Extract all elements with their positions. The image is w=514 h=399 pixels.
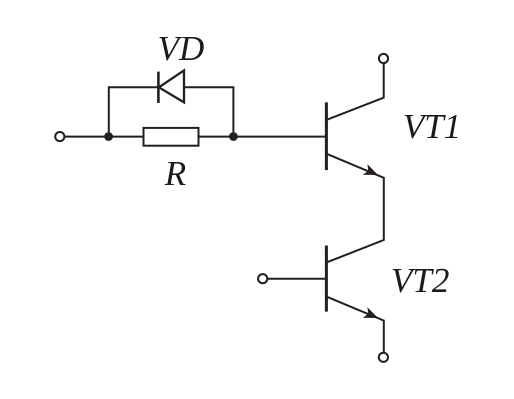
svg-text:VT2: VT2	[391, 261, 449, 300]
svg-text:VT1: VT1	[403, 107, 461, 146]
svg-text:VD: VD	[158, 29, 205, 68]
svg-text:R: R	[164, 154, 186, 193]
